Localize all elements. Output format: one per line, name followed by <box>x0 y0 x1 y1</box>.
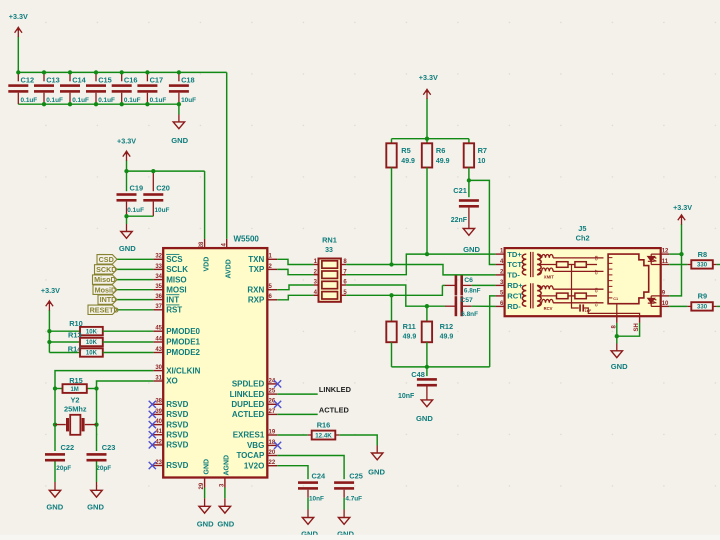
wire C19/C20 top rail <box>127 170 205 172</box>
wire C18 to ground <box>178 104 180 114</box>
wire R5 to TD- net <box>391 168 393 265</box>
ground (J5 shield) <box>611 351 628 371</box>
svg-text:RXN: RXN <box>247 285 264 294</box>
svg-text:33: 33 <box>155 264 162 270</box>
svg-text:31: 31 <box>155 375 162 381</box>
svg-text:10nF: 10nF <box>398 393 415 400</box>
junction R15 right <box>94 386 98 390</box>
svg-text:49.9: 49.9 <box>440 333 454 340</box>
RN1 pin 2 stub <box>313 274 318 276</box>
wire R6 to TD+ net <box>426 168 428 255</box>
resistor R5 <box>386 143 396 167</box>
svg-text:ACTLED: ACTLED <box>319 406 350 415</box>
capacitor C20 <box>143 193 163 201</box>
pin 29 GND stub <box>204 478 206 488</box>
wire MosiD to pin <box>117 289 153 291</box>
svg-text:12: 12 <box>662 249 669 255</box>
svg-text:R11: R11 <box>403 322 416 331</box>
wire C21 to ground <box>468 208 470 229</box>
svg-text:11: 11 <box>662 259 669 265</box>
capacitor C14 <box>60 84 80 92</box>
wire VDD feed <box>204 171 206 239</box>
svg-text:330: 330 <box>697 263 708 269</box>
wire 1V2O to C24 <box>277 466 308 479</box>
svg-text:GND: GND <box>416 414 433 423</box>
RN1 pin 5 stub <box>341 294 346 296</box>
resistor R6 <box>422 143 432 167</box>
svg-text:C15: C15 <box>98 75 112 84</box>
no-connect X pin 24 SPDLED <box>274 380 281 387</box>
wire to TCT <box>469 180 496 264</box>
svg-text:330: 330 <box>697 305 708 311</box>
capacitor C21 <box>459 199 479 207</box>
wire lead C14 bottom <box>69 93 71 105</box>
svg-text:PMODE2: PMODE2 <box>166 348 200 357</box>
junction top rail <box>94 70 98 74</box>
junction top rail <box>145 70 149 74</box>
svg-text:SPDLED: SPDLED <box>232 380 265 389</box>
svg-text:23: 23 <box>155 460 162 466</box>
resistor R15 <box>63 384 87 393</box>
wire C23 ground stub <box>96 482 98 490</box>
svg-text:38: 38 <box>155 399 162 405</box>
J5 XMIT termination resistor B <box>575 262 586 268</box>
hierarchical label CSD <box>97 254 117 264</box>
J5 pin 8 stub <box>616 316 618 323</box>
svg-text:Ch2: Ch2 <box>576 234 590 243</box>
J5 RCV top lead with choke <box>537 285 542 289</box>
svg-text:C23: C23 <box>102 443 116 452</box>
svg-text:C19: C19 <box>130 184 144 193</box>
svg-text:R8: R8 <box>698 250 707 259</box>
wire R12 top lead <box>426 306 428 321</box>
svg-text:TXP: TXP <box>249 265 265 274</box>
hierarchical label RESETD <box>88 305 119 315</box>
svg-text:6.8nF: 6.8nF <box>464 288 481 295</box>
wire CSD to pin <box>117 258 153 260</box>
pin 42 RSVD <box>153 439 188 449</box>
wire XI to R15 <box>55 371 153 389</box>
svg-text:25Mhz: 25Mhz <box>64 404 87 413</box>
wire TXP to RN1 pin2 <box>277 269 313 274</box>
svg-text:10uF: 10uF <box>181 97 196 104</box>
svg-text:C17: C17 <box>150 75 164 84</box>
no-connect X pin 26 DUPLED <box>274 401 281 408</box>
svg-text:32: 32 <box>155 254 162 260</box>
wire bottom decoupling rail <box>18 103 179 105</box>
svg-text:RSVD: RSVD <box>166 410 188 419</box>
pin 30 XI/CLKIN <box>153 365 200 375</box>
resistor R11 <box>386 322 396 343</box>
capacitor C22 <box>45 453 65 461</box>
pin 24 SPDLED <box>232 378 277 388</box>
svg-text:0.1uF: 0.1uF <box>124 97 141 104</box>
svg-text:0.1uF: 0.1uF <box>21 97 38 104</box>
svg-text:39: 39 <box>155 409 162 415</box>
pin 38 RSVD <box>153 399 188 409</box>
svg-text:30: 30 <box>155 365 162 371</box>
J5 center-tap vertical to cap <box>572 265 579 309</box>
wire J5 pin11 to R8 <box>669 264 687 266</box>
pin 43 PMODE2 <box>153 347 200 357</box>
svg-text:XMIT: XMIT <box>544 275 554 280</box>
svg-text:R9: R9 <box>698 292 707 301</box>
capacitor C15 <box>86 84 106 92</box>
capacitor C57 <box>455 296 463 316</box>
capacitor C13 <box>34 84 54 92</box>
LED1 (J5 pins 12-11) <box>648 254 661 264</box>
svg-text:C6: C6 <box>595 288 599 293</box>
no-connect X pin 23 <box>149 462 156 469</box>
crystal Y2 <box>55 415 97 435</box>
pin 44 PMODE1 <box>153 336 200 346</box>
svg-text:C57: C57 <box>460 297 473 304</box>
J5 XMIT termination out <box>586 264 597 266</box>
pin 41 RSVD <box>153 429 188 439</box>
wire R14 to PMODE2 <box>103 352 154 354</box>
svg-text:C25: C25 <box>349 472 363 481</box>
J5 pin 12 <box>661 249 670 255</box>
svg-text:22nF: 22nF <box>451 217 468 224</box>
svg-text:1V2O: 1V2O <box>244 461 264 470</box>
svg-text:GND: GND <box>46 503 63 512</box>
capacitor C17 <box>137 84 157 92</box>
RN1 element 2 <box>322 271 338 278</box>
wire C24 to ground <box>307 498 309 510</box>
svg-text:W5500: W5500 <box>234 235 260 244</box>
wire R11 bottom lead <box>391 342 393 367</box>
no-connect X pin 42 <box>149 441 156 448</box>
pin 32 SCS <box>153 254 183 264</box>
svg-text:R6: R6 <box>436 146 445 155</box>
wire R13 to PMODE1 <box>103 341 154 343</box>
wire J5 ground stub <box>616 344 618 351</box>
wire GND pin to ground <box>204 488 206 499</box>
wire C18 ground stub <box>178 115 180 122</box>
svg-text:+3.3V: +3.3V <box>41 286 60 295</box>
svg-text:44: 44 <box>155 336 162 342</box>
svg-text:RST: RST <box>166 306 182 315</box>
wire C25 to ground <box>343 498 345 510</box>
wire C24 bottom lead <box>307 490 309 498</box>
J5 pin 9 <box>661 291 670 297</box>
wire lead C13 bottom <box>43 93 45 105</box>
ground (below C21) <box>463 229 480 255</box>
pin 35 MOSI <box>153 284 186 294</box>
junction top rail <box>16 70 20 74</box>
svg-text:43: 43 <box>155 347 162 353</box>
wire common to RCT <box>490 296 496 367</box>
svg-text:C8: C8 <box>595 256 599 261</box>
hierarchical label SCKD <box>95 265 118 274</box>
svg-text:MosiD: MosiD <box>95 285 117 294</box>
pin 20 TOCAP <box>236 450 277 460</box>
capacitor C19 <box>117 193 137 201</box>
wire C19/C20 bottom <box>127 215 154 217</box>
ground (below C25) <box>337 518 354 539</box>
wire lead C12 bottom <box>17 93 19 105</box>
junction bottom rail <box>120 102 124 106</box>
resistor R9 <box>691 302 713 310</box>
svg-text:C7: C7 <box>595 270 599 275</box>
J5 RCV transformer secondary <box>537 285 541 306</box>
svg-text:RCV: RCV <box>544 306 553 311</box>
wire lead C20 top <box>152 171 154 191</box>
svg-text:GND: GND <box>217 519 234 528</box>
svg-text:GND: GND <box>368 467 385 476</box>
svg-text:10: 10 <box>662 301 669 307</box>
capacitor C24 <box>298 481 318 489</box>
J5 XMIT bottom lead with choke <box>537 271 542 275</box>
svg-text:+3.3V: +3.3V <box>9 12 28 21</box>
wire EXRES1 to R16 <box>277 434 308 436</box>
wire lead C19 top <box>126 171 128 191</box>
J5 RCV termination resistor B <box>575 293 586 299</box>
svg-text:CSD: CSD <box>99 255 114 264</box>
wire C19 ground stub <box>126 224 128 232</box>
svg-text:0.1uF: 0.1uF <box>98 97 115 104</box>
junction C48 <box>425 365 429 369</box>
wire C6 to RD+ <box>472 284 496 286</box>
power +3.3V (C19/C20) <box>117 137 136 172</box>
svg-text:49.9: 49.9 <box>401 158 415 165</box>
svg-text:1M: 1M <box>70 387 78 393</box>
svg-text:C18: C18 <box>181 75 195 84</box>
svg-text:LINKLED: LINKLED <box>230 390 265 399</box>
wire down to crystal left <box>54 389 56 425</box>
RN1 pin 7 stub <box>341 274 346 276</box>
J5 internal capacitor <box>579 304 581 311</box>
ground (below C48) <box>416 400 433 423</box>
wire RESETD to pin <box>117 309 153 311</box>
wire R8 left lead <box>687 264 691 266</box>
resistor R16 <box>312 431 336 440</box>
wire lead C15 bottom <box>95 93 97 105</box>
wire C48 top lead <box>426 367 428 376</box>
J5 XMIT transformer core <box>531 252 533 277</box>
J5 pin 10 <box>661 301 670 307</box>
wire AVDD feed <box>226 72 228 239</box>
svg-text:PMODE1: PMODE1 <box>166 338 200 347</box>
svg-text:40: 40 <box>155 419 162 425</box>
svg-text:6.8nF: 6.8nF <box>461 311 478 318</box>
junction bottom rail <box>177 102 181 106</box>
capacitor C6 <box>455 275 463 295</box>
pin 2 TXP <box>249 264 277 274</box>
svg-text:RN1: RN1 <box>322 236 337 245</box>
J5 RCV transformer primary <box>522 285 526 306</box>
svg-text:R12: R12 <box>440 322 454 331</box>
junction R12 on RD- net <box>425 304 429 308</box>
wire INTD to pin <box>117 299 153 301</box>
RN1 pin 3 stub <box>313 284 318 286</box>
junction C19 bottom <box>124 214 128 218</box>
wire RXN to RN1 pin3 <box>277 285 313 290</box>
svg-text:C21: C21 <box>453 186 467 195</box>
resistor R7 <box>464 143 474 167</box>
svg-text:INT: INT <box>166 295 179 304</box>
RN1 pin 6 stub <box>341 284 346 286</box>
power +3.3V (top-left) <box>9 12 28 72</box>
wire junction to C57 <box>427 305 445 307</box>
pin 36 INT <box>153 294 179 304</box>
wire J5 pin8 to ground <box>616 323 618 344</box>
wire C25 ground stub <box>343 510 345 518</box>
wire C57 to RD- <box>472 305 496 307</box>
svg-text:10: 10 <box>478 158 486 165</box>
wire J5 SH to ground <box>617 323 640 336</box>
wire R9 left lead <box>687 305 691 307</box>
pin 25 LINKLED <box>230 389 278 399</box>
no-connect X pin 40 <box>149 421 156 428</box>
RN1 pin 1 stub <box>313 264 318 266</box>
junction top rail <box>42 70 46 74</box>
J5 RJ45 jack outline <box>608 254 649 304</box>
wire lead C15 top <box>95 72 97 81</box>
wire R7 top lead <box>468 139 470 144</box>
svg-text:AVDD: AVDD <box>225 259 232 278</box>
svg-text:C14: C14 <box>72 75 86 84</box>
ground (below C18) <box>171 122 188 145</box>
svg-text:C6: C6 <box>464 277 473 284</box>
svg-text:45: 45 <box>155 326 162 332</box>
RN1 element 1 <box>322 261 338 268</box>
svg-text:0.1uF: 0.1uF <box>72 97 89 104</box>
wire R9 right lead <box>713 305 717 307</box>
ground (below C24) <box>301 518 318 539</box>
svg-text:RSVD: RSVD <box>166 430 188 439</box>
svg-text:0.1uF: 0.1uF <box>127 207 144 214</box>
J5 internal cap to SH <box>584 308 640 316</box>
wire C57 right lead <box>463 305 472 307</box>
wire lead C19 bottom <box>126 202 128 217</box>
svg-text:C24: C24 <box>312 472 326 481</box>
wire lead C16 top <box>121 72 123 81</box>
pin 3 AGND stub <box>224 478 226 488</box>
resistor R12 <box>422 322 432 343</box>
wire +3.3V to J5 pin9 <box>669 254 681 296</box>
capacitor C16 <box>112 84 132 92</box>
svg-text:AGND: AGND <box>224 455 231 476</box>
wire lead C13 top <box>43 72 45 81</box>
svg-text:RXP: RXP <box>248 296 265 305</box>
junction R13 <box>47 340 51 344</box>
wire R13 left <box>49 341 80 343</box>
svg-text:MISO: MISO <box>166 275 186 284</box>
pin 19 EXRES1 <box>233 429 277 439</box>
svg-text:41: 41 <box>155 429 162 435</box>
svg-text:4.7uF: 4.7uF <box>345 496 362 503</box>
svg-text:DUPLED: DUPLED <box>231 400 264 409</box>
svg-text:RSVD: RSVD <box>166 420 188 429</box>
hierarchical label MosiD <box>93 285 117 294</box>
svg-text:RSVD: RSVD <box>166 461 188 470</box>
J5 jack shield to pin8 <box>616 304 618 317</box>
wire C23 to ground <box>96 462 98 483</box>
wire top decoupling rail <box>18 71 226 73</box>
svg-text:R7: R7 <box>478 146 487 155</box>
wire to ground C19 <box>126 216 128 224</box>
wire R9 out <box>717 305 720 307</box>
resistor R13 <box>80 338 103 346</box>
junction R6 on TD+ net <box>425 252 429 256</box>
hierarchical label INTD <box>98 295 117 305</box>
J5 RJ45 jack contacts <box>608 258 612 298</box>
junction bottom rail <box>68 102 72 106</box>
wire XO to R15 <box>97 381 154 389</box>
svg-text:INTD: INTD <box>100 295 117 304</box>
junction crystal right <box>94 422 98 426</box>
wire SCKD to pin <box>117 268 153 270</box>
svg-text:27: 27 <box>269 409 276 415</box>
pin 39 RSVD <box>153 409 188 419</box>
svg-text:25: 25 <box>269 389 276 395</box>
wire R7 bottom lead <box>468 168 470 181</box>
pin 22 1V2O <box>244 460 277 470</box>
svg-text:MOSI: MOSI <box>166 285 186 294</box>
wire lead C12 top <box>17 72 19 81</box>
IC U1 W5500 body <box>163 248 267 477</box>
ground (below C19) <box>119 232 136 254</box>
wire J5 pin10 to R9 <box>669 305 687 307</box>
capacitor C23 <box>87 453 107 461</box>
ground (IC GND pin) <box>197 506 214 528</box>
pin 18 VBG <box>247 440 277 450</box>
svg-text:+3.3V: +3.3V <box>117 137 136 146</box>
pin 33 SCLK <box>153 264 188 274</box>
wire C22 ground stub <box>54 482 56 490</box>
J5 RCV bottom lead with choke <box>537 303 542 307</box>
junction R15 left <box>53 386 57 390</box>
wire jog to C6 <box>442 284 445 286</box>
svg-text:35: 35 <box>155 284 162 290</box>
J5 XMIT transformer secondary <box>537 254 541 275</box>
no-connect X pin 41 <box>149 431 156 438</box>
J5 internal node marks <box>595 256 599 307</box>
svg-text:20: 20 <box>269 450 276 456</box>
svg-text:C48: C48 <box>411 370 425 379</box>
svg-text:49.9: 49.9 <box>403 333 417 340</box>
wire lead C18 top <box>178 72 180 81</box>
junction bottom rail <box>42 102 46 106</box>
pin 40 RSVD <box>153 419 188 429</box>
ground (below C23) <box>87 490 104 511</box>
power +3.3V (PMODE pull-ups) <box>41 286 60 353</box>
wire R12 bottom lead <box>426 342 428 367</box>
wire TOCAP to C25 <box>277 456 344 480</box>
J5 XMIT termination link <box>568 264 575 266</box>
svg-text:R5: R5 <box>401 146 410 155</box>
capacitor C48 <box>417 378 437 386</box>
wire down to crystal right <box>96 389 98 425</box>
junction C19 top <box>124 169 128 173</box>
wire RN1 pin5 jog up <box>346 285 442 295</box>
bottom margin strip <box>0 535 720 540</box>
J5 RCV center tap lead <box>537 295 556 297</box>
svg-text:XO: XO <box>166 377 178 386</box>
junction J5 ground <box>615 334 619 338</box>
wire lead C17 bottom <box>146 93 148 105</box>
capacitor C12 <box>8 84 28 92</box>
J5 XMIT transformer primary <box>522 254 526 275</box>
wire R16 left lead <box>308 434 312 436</box>
J5 XMIT termination resistor A <box>557 262 569 268</box>
junction pull-up rail <box>425 137 429 141</box>
wire R5 top lead <box>391 139 393 144</box>
J5 XMIT center tap lead <box>537 264 556 266</box>
resistor R10 <box>80 327 103 335</box>
svg-text:TXN: TXN <box>248 255 264 264</box>
